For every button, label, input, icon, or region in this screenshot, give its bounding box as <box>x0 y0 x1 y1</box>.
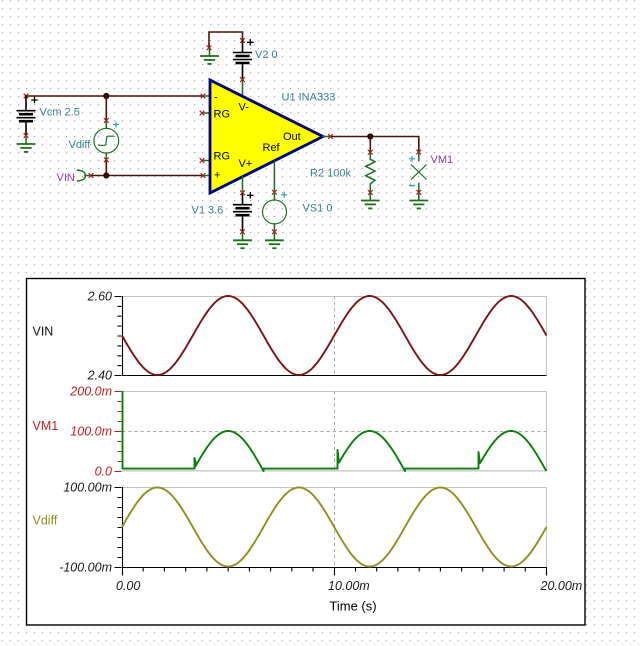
node V2 plus pin <box>241 39 245 43</box>
node plus pin <box>201 174 205 178</box>
trace VM1 <box>123 391 547 471</box>
resistor R2 <box>366 154 375 191</box>
svg-text:+: + <box>214 170 220 182</box>
svg-text:0.0: 0.0 <box>95 465 112 479</box>
svg-text:Time (s): Time (s) <box>329 599 376 614</box>
svg-text:0.00: 0.00 <box>116 579 140 593</box>
node VS1 top <box>273 190 277 194</box>
svg-text:VS1 0: VS1 0 <box>303 202 333 214</box>
node Vdiff top <box>104 119 108 123</box>
svg-text:-100.00m: -100.00m <box>59 561 112 575</box>
node V1 top <box>241 191 245 195</box>
wire junction to Vdiff <box>105 96 107 120</box>
trace Vdiff <box>122 488 547 567</box>
wire V- pin lead <box>242 81 244 95</box>
node A junction <box>103 93 109 99</box>
source Vdiff <box>114 122 119 127</box>
wire Ref pin to VS1 <box>273 162 275 192</box>
svg-text:Ref: Ref <box>263 142 281 154</box>
wire minus input <box>26 95 203 97</box>
node V2 ground pin <box>207 46 211 50</box>
svg-text:VM1: VM1 <box>431 154 454 166</box>
trace VIN <box>122 296 547 375</box>
node R2 top <box>368 150 372 154</box>
ground Vcm <box>25 138 27 144</box>
ground VS1 <box>273 234 275 240</box>
ground VM1 <box>418 194 420 200</box>
node C junction <box>367 133 373 139</box>
node minus pin <box>201 94 205 98</box>
svg-text:VIN: VIN <box>57 172 75 184</box>
svg-text:RG: RG <box>214 109 231 121</box>
svg-text:Vdiff: Vdiff <box>69 139 92 151</box>
macro pin VIN <box>78 170 86 181</box>
svg-text:Out: Out <box>283 131 301 143</box>
source VS1 <box>282 192 287 197</box>
node V1 bottom <box>241 230 245 234</box>
battery V1 <box>248 193 253 198</box>
svg-text:V+: V+ <box>239 158 253 170</box>
pin Out stub <box>323 136 329 138</box>
plot frame <box>27 279 586 626</box>
svg-text:2.60: 2.60 <box>87 290 112 304</box>
svg-text:100.00m: 100.00m <box>63 481 112 495</box>
ground V1 <box>242 234 244 240</box>
wire V+ pin to V1 <box>242 177 244 191</box>
svg-text:2.40: 2.40 <box>87 369 112 383</box>
svg-text:R2 100k: R2 100k <box>310 167 351 179</box>
node Out pin <box>329 135 333 139</box>
gridlines vertical right <box>546 296 548 567</box>
svg-text:Vdiff: Vdiff <box>33 514 58 528</box>
svg-text:RG: RG <box>214 151 231 163</box>
op-amp U1 INA333 <box>210 80 323 193</box>
svg-text:100.0m: 100.0m <box>70 425 112 439</box>
node Vdiff bottom <box>104 158 108 162</box>
gridlines horizontal <box>122 297 547 488</box>
ground R2 <box>369 194 371 200</box>
node VM1 top <box>417 150 421 154</box>
pin RG2 stub <box>203 160 210 162</box>
svg-text:VM1: VM1 <box>33 419 59 433</box>
svg-text:V2 0: V2 0 <box>255 49 278 61</box>
node Vcm bottom <box>24 134 28 138</box>
battery V2 <box>248 40 253 45</box>
svg-text:200.0m: 200.0m <box>69 385 112 399</box>
node R2 bottom <box>368 191 372 195</box>
ground <box>209 50 211 56</box>
wire output <box>332 137 419 152</box>
svg-text:U1 INA333: U1 INA333 <box>282 92 336 104</box>
node B junction <box>103 172 109 178</box>
svg-text:VIN: VIN <box>33 325 54 339</box>
wire VIN <box>93 175 203 177</box>
axis VIN <box>122 296 547 376</box>
gridlines vertical dashed 10m <box>334 296 336 567</box>
svg-text:V1 3.6: V1 3.6 <box>192 205 224 217</box>
trace VM1 axis line <box>122 470 547 472</box>
svg-text:V-: V- <box>239 102 250 114</box>
svg-text:Vcm 2.5: Vcm 2.5 <box>40 107 80 119</box>
svg-text:10.00m: 10.00m <box>328 579 370 593</box>
pin RG1 stub <box>203 112 210 114</box>
gridline dashed VM1 mid <box>122 431 547 433</box>
node VM1 bottom <box>417 190 421 194</box>
node V2 bottom <box>241 78 245 82</box>
voltmeter VM1 <box>418 154 420 161</box>
node VIN pin <box>89 174 93 178</box>
wire Vdiff to VIN net <box>105 161 107 176</box>
axis VM1 (red ticks) <box>115 392 122 472</box>
node Vcm top <box>24 94 28 98</box>
wire top V2 to ground <box>209 32 243 48</box>
axis time ticks <box>123 567 547 576</box>
svg-text:-: - <box>214 92 218 104</box>
battery Vcm <box>32 97 37 102</box>
node VS1 bottom <box>273 230 277 234</box>
axis Vdiff <box>122 487 547 568</box>
svg-text:20.00m: 20.00m <box>540 579 583 593</box>
